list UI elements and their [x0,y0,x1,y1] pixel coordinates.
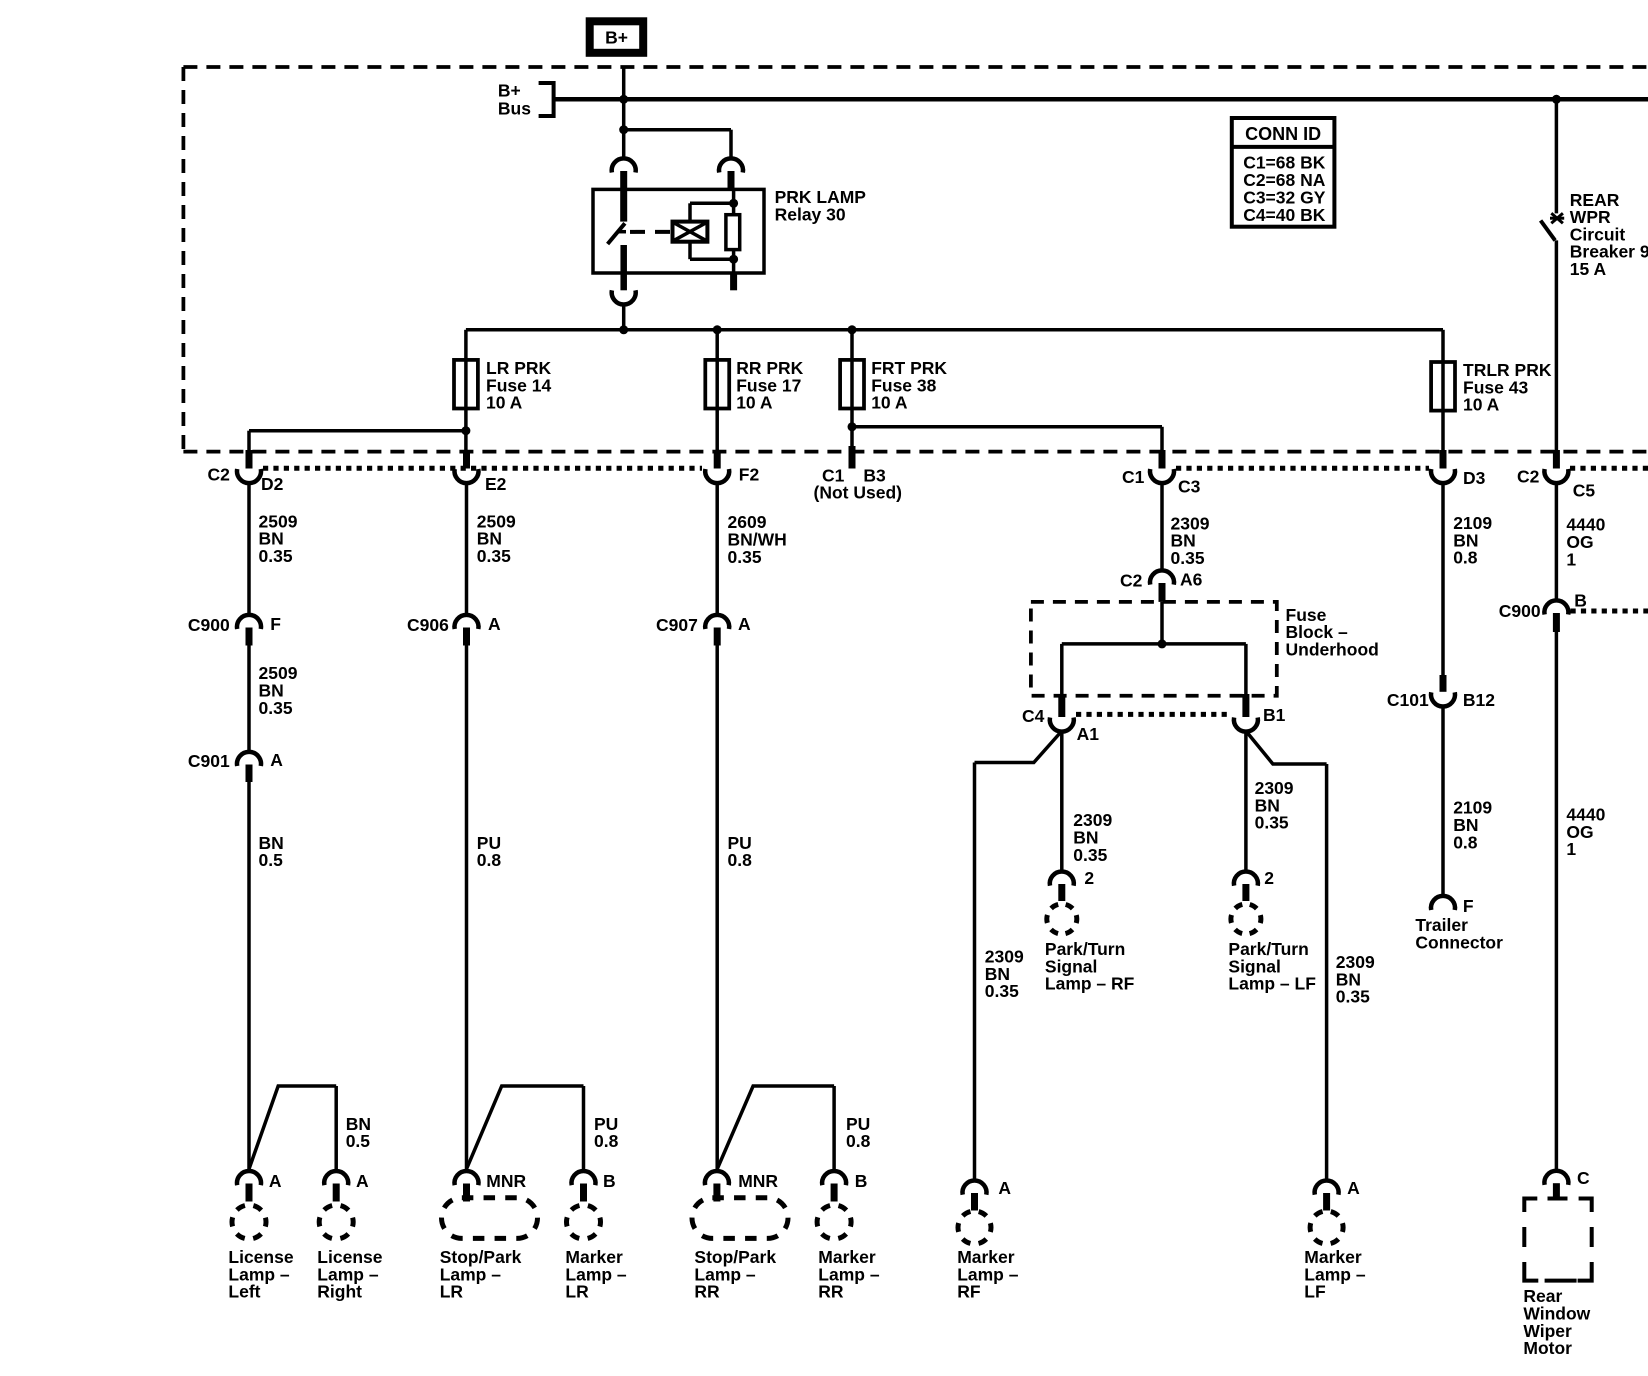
svg-text:A: A [1347,1178,1360,1198]
svg-text:B: B [603,1171,616,1191]
svg-text:CONN ID: CONN ID [1245,124,1321,144]
dotted harness row right of C900/B [1571,609,1648,614]
junction - FRT branch [848,422,857,431]
pin - marker lamp LF [1323,1193,1330,1211]
pin - C906/A [463,628,470,646]
svg-text:B: B [1574,590,1587,610]
B+ Bus bracket [539,83,554,116]
connector terminal F2 [705,469,729,483]
CONN ID table box [1232,118,1335,227]
svg-text:0.35: 0.35 [728,547,762,567]
svg-text:C4=40 BK: C4=40 BK [1243,205,1326,225]
connector C2 terminal C5 [1544,469,1568,483]
wire - resistor top lead [732,190,736,215]
connector - relay switch output (female) [612,290,636,304]
wire - marker LR branch [467,1086,584,1169]
lamp - Marker Lamp LR [567,1205,601,1239]
relay switch blade tick [617,230,626,234]
svg-text:C2: C2 [1120,570,1143,590]
svg-text:15 A: 15 A [1570,259,1607,279]
wire - LR branch horizontal to D2 [249,429,466,433]
fuse LR PRK Fuse 14 [454,360,478,409]
dashed box Fuse Block - Underhood [1031,602,1277,696]
svg-text:0.35: 0.35 [1336,987,1370,1007]
svg-text:0.8: 0.8 [846,1131,871,1151]
pin - connector E2 [463,450,470,469]
wire 2309 BN 0.35 (C3-A6) [1160,483,1164,571]
svg-text:D2: D2 [261,474,284,494]
pin - park/turn LF [1242,884,1249,901]
connector - relay switch input (female) [612,158,636,172]
wire 2509 BN 0.35 (C900-C901) [247,646,251,753]
connector C2 terminal A6 [1150,570,1174,584]
pin - relay coil input [728,171,735,190]
dashed box - underhood electrical center (top edge) [183,65,1648,69]
pin - connector F2 [714,450,721,469]
pin - marker lamp RF [971,1193,978,1211]
relay resistor [726,215,740,250]
wire 2109 BN 0.8 (C101-trailer) [1441,707,1445,897]
wire - license right branch [249,1086,336,1169]
wire 4440 OG 1 (C900/B to wiper) [1555,632,1559,1171]
svg-text:Left: Left [228,1282,260,1302]
connector terminal F (trailer) [1431,896,1455,910]
junction - coil/resistor top [729,199,738,208]
lamp - License Lamp Left [232,1205,266,1239]
svg-text:A: A [738,614,751,634]
dotted harness row D2-F2 [263,466,702,471]
wire - RR fuse to F2 [715,409,719,453]
junction - relay branch [619,125,628,134]
svg-text:C1: C1 [1122,467,1145,487]
svg-text:C101: C101 [1387,690,1429,710]
lamp - Park/Turn Signal Lamp LF [1231,904,1261,934]
svg-text:B: B [855,1171,868,1191]
motor box - Rear Window Wiper Motor [1524,1199,1591,1281]
pin - connector C2/D2 [246,450,253,469]
svg-text:RF: RF [957,1282,981,1302]
wire - TRLR fuse to D3 [1441,411,1445,452]
pin - stop/park lamp LR [463,1184,470,1202]
svg-text:LR: LR [440,1282,464,1302]
wire - relay branch horizontal [624,128,731,132]
wire 2309 BN 0.35 (marker RF drop) [973,763,977,1182]
pin - C900/F [246,628,253,646]
svg-text:0.8: 0.8 [1453,832,1478,852]
connector terminal A (license lamp right) [324,1171,348,1185]
junction - distribution at relay output [619,325,628,334]
connector terminal MNR (stop/park lamp RR) [705,1171,729,1185]
pin - stop/park lamp RR [713,1184,720,1202]
svg-text:A1: A1 [1077,724,1100,744]
wire 2609 BN/WH 0.35 (F2-C907) [715,483,719,615]
svg-text:A: A [270,750,283,770]
fuse TRLR PRK Fuse 43 [1431,362,1455,411]
lamp - Marker Lamp RF [958,1211,991,1244]
connector terminal B1 [1234,718,1258,732]
wire 2509 BN 0.35 (D2-C900) [247,483,251,615]
svg-text:C901: C901 [188,751,230,771]
connector C2 terminal D2 [237,469,261,483]
connector terminal 2 (park/turn RF) [1050,872,1074,886]
wire - B+ to bus [622,67,626,99]
circuit breaker blade [1541,221,1556,241]
svg-text:C4: C4 [1022,706,1045,726]
svg-text:F: F [270,614,281,634]
lamp - Park/Turn Signal Lamp RF [1047,904,1077,934]
svg-text:Underhood: Underhood [1286,639,1379,659]
svg-text:Lamp – LF: Lamp – LF [1228,974,1316,994]
wire BN 0.5 (license right drop) [334,1086,338,1172]
svg-text:F2: F2 [739,464,760,484]
dotted harness row A1-B1 [1076,712,1232,717]
svg-text:RR: RR [694,1282,720,1302]
svg-text:0.35: 0.35 [477,546,511,566]
svg-text:2: 2 [1264,868,1274,888]
pin - marker lamp LR [580,1184,587,1202]
connector C101 terminal B12 [1431,692,1455,706]
connector C906 terminal A [455,615,479,629]
connector terminal A (license lamp left) [237,1171,261,1185]
connector terminal B (marker lamp LR) [572,1171,596,1185]
relay box PRK LAMP Relay 30 [593,189,764,273]
junction - bus at relay feed [619,95,628,104]
pin - rear window wiper motor [1553,1183,1560,1199]
wire through LR fuse [464,360,468,409]
wire - marker RR branch [717,1086,834,1169]
wire - fuse block left drop [1060,644,1064,696]
wire - relay output to distribution [622,303,626,330]
wire through FRT fuse [850,360,854,409]
svg-text:C907: C907 [656,615,698,635]
wire - circuit breaker to C5 [1555,240,1559,452]
connector terminal A (marker lamp RF) [963,1181,987,1195]
junction - distribution at FRT fuse [848,325,857,334]
wire PU 0.8 (marker RR drop) [832,1086,836,1172]
wire - fuse block right drop [1244,644,1248,696]
wire - fuse distribution horizontal [466,328,1443,332]
connector C901 terminal A [237,752,261,766]
connector terminal D3 [1431,469,1455,483]
pin - park/turn RF [1058,884,1065,901]
svg-text:Connector: Connector [1415,932,1503,952]
svg-text:A: A [269,1171,282,1191]
lamp - Marker Lamp RR [817,1205,851,1239]
connector C907 terminal A [705,615,729,629]
connector C900 terminal F [237,615,261,629]
fuse RR PRK Fuse 17 [705,360,729,409]
B+ power symbol box [590,21,644,53]
pin - relay coil output stub [730,273,737,290]
wire PU 0.8 (marker LR drop) [582,1086,586,1172]
connector terminal A (marker lamp LF) [1315,1181,1339,1195]
svg-text:MNR: MNR [486,1171,526,1191]
wire - bus to circuit breaker [1555,99,1559,213]
wire - relay switch feed vertical [622,130,626,159]
svg-text:1: 1 [1566,839,1576,859]
pin - connector C1/C3 [1159,450,1166,469]
pin - C907/A [714,628,721,646]
svg-text:MNR: MNR [738,1171,778,1191]
svg-text:(Not Used): (Not Used) [814,483,902,503]
circuit breaker asterisk [1551,213,1563,223]
pin - license lamp left [246,1184,253,1202]
wire - C3 drop [1160,427,1164,452]
wire - coil top lead [688,203,692,221]
relay switch lower contact [620,245,627,290]
wire - LR fuse to junction [464,409,468,453]
relay coil box [673,222,708,242]
pin - connector D3 [1440,450,1447,469]
wire 2109 BN 0.8 (D3-C101) [1441,483,1445,676]
svg-text:A: A [488,614,501,634]
connector C900 terminal B [1544,600,1568,614]
lamp - Marker Lamp LF [1310,1211,1343,1244]
junction - bus at circuit breaker feed [1552,95,1561,104]
svg-text:C5: C5 [1573,480,1596,500]
pin - marker lamp RR [831,1184,838,1202]
svg-text:B12: B12 [1463,690,1495,710]
svg-text:0.8: 0.8 [728,850,753,870]
svg-text:C906: C906 [407,615,449,635]
dotted harness row C5-right [1570,466,1648,471]
wire - resistor bottom lead [732,250,736,273]
svg-text:0.5: 0.5 [259,850,284,870]
pin - connector B1 [1242,694,1249,717]
fuse FRT PRK Fuse 38 [840,360,864,409]
svg-text:A: A [998,1178,1011,1198]
connector terminal E2 [455,469,479,483]
svg-text:C900: C900 [188,615,230,635]
lamp - Stop/Park Lamp RR [692,1198,788,1239]
wire 2309 BN 0.35 (B1 to park/turn LF) [1244,730,1248,872]
pin - connector C2/C5 [1553,450,1560,469]
relay switch blade [608,223,625,244]
connector terminal B (marker lamp RR) [822,1171,846,1185]
svg-text:0.5: 0.5 [346,1131,371,1151]
svg-text:Bus: Bus [498,99,531,119]
svg-text:0.35: 0.35 [1171,548,1205,568]
pin - C900/B [1553,613,1560,632]
connector terminal C (rear window wiper motor) [1544,1171,1568,1185]
svg-text:10 A: 10 A [1463,395,1500,415]
wire - FRT fuse top lead [850,330,854,360]
connector terminal 2 (park/turn LF) [1234,872,1258,886]
svg-text:B1: B1 [1263,705,1286,725]
svg-text:Relay 30: Relay 30 [775,204,846,224]
svg-text:1: 1 [1566,549,1576,569]
pin - connector C1/B3 not used [849,446,856,469]
wire - fuse block horizontal [1062,642,1246,646]
dashed box - underhood electrical center (bottom edge) [183,450,1648,454]
wire - RR fuse top lead [715,330,719,360]
dotted harness row C3-D3 [1176,466,1429,471]
pin - connector C4/A1 [1058,694,1065,717]
svg-text:LR: LR [565,1282,589,1302]
lamp - Stop/Park Lamp LR [442,1198,538,1239]
wire - B+ bus horizontal [554,97,1648,102]
wire - B1 diagonal branch [1246,731,1327,764]
lamp - License Lamp Right [319,1205,353,1239]
svg-text:10 A: 10 A [486,393,523,413]
wire - FRT branch horizontal to C3 [852,425,1162,429]
svg-text:B+: B+ [605,28,628,48]
wire - D2 drop [247,431,251,452]
relay coil X diagonal 2 [674,223,707,241]
svg-text:0.35: 0.35 [259,546,293,566]
wire - FRT fuse to junction [850,409,854,450]
svg-text:0.8: 0.8 [594,1131,619,1151]
wire - coil bottom lead [688,242,692,260]
connector C1 terminal C3 [1150,469,1174,483]
connector C4 terminal A1 [1050,718,1074,732]
svg-text:10 A: 10 A [871,393,908,413]
pin - license lamp right [333,1184,340,1202]
pin - C901/A [246,765,253,783]
svg-text:0.35: 0.35 [985,981,1019,1001]
wire through TRLR fuse [1441,362,1445,411]
svg-text:B+: B+ [498,81,521,101]
pin - C2/A6 [1159,583,1166,602]
wire PU 0.8 (C907 down) [715,646,719,1172]
junction - LR branch [461,426,470,435]
svg-text:E2: E2 [485,474,507,494]
svg-text:0.35: 0.35 [259,698,293,718]
svg-text:10 A: 10 A [736,393,773,413]
wire BN 0.5 (C901 down) [247,782,251,1172]
wire - relay coil feed vertical [729,130,733,159]
CONN ID table divider [1232,145,1335,149]
wire - A6 into fuse block [1160,602,1164,644]
junction - distribution at RR fuse [713,325,722,334]
svg-text:0.8: 0.8 [1453,548,1478,568]
wire 2309 BN 0.35 (A1 to park/turn RF) [1060,730,1064,872]
svg-text:Motor: Motor [1523,1338,1572,1358]
relay coil X diagonal 1 [674,223,707,241]
svg-text:D3: D3 [1463,468,1486,488]
pin - connector C101/B12 [1440,675,1447,692]
wire through RR fuse [715,360,719,409]
svg-text:2: 2 [1084,868,1094,888]
svg-text:C3: C3 [1178,476,1201,496]
svg-text:F: F [1463,896,1474,916]
junction - coil/resistor bottom [729,255,738,264]
svg-text:0.35: 0.35 [1073,845,1107,865]
svg-text:A6: A6 [1180,569,1203,589]
wire - relay feed vertical [622,99,626,129]
svg-text:LF: LF [1304,1282,1326,1302]
wire PU 0.8 (C906 down) [465,646,469,1172]
dashed box - underhood electrical center (left edge) [182,67,186,452]
wire - LR fuse top lead [464,330,468,360]
svg-text:RR: RR [818,1282,844,1302]
pin - relay switch input [620,171,627,222]
svg-text:C2: C2 [208,464,231,484]
junction - fuse block split [1158,639,1167,648]
relay coil dashed link [630,230,671,234]
svg-text:0.8: 0.8 [477,850,502,870]
svg-text:A: A [356,1171,369,1191]
svg-text:Lamp – RF: Lamp – RF [1045,974,1135,994]
wire 2509 BN 0.35 (E2-C906) [465,483,469,615]
wire - A1 diagonal branch [975,731,1062,763]
svg-text:Right: Right [317,1282,362,1302]
svg-text:0.35: 0.35 [1255,813,1289,833]
svg-text:C: C [1577,1168,1590,1188]
wire 2309 BN 0.35 (marker LF drop) [1325,764,1329,1181]
wire - TRLR fuse top lead [1441,330,1445,362]
connector - relay coil input (female) [719,158,743,172]
wire 4440 OG 1 (C5-C900) [1555,483,1559,601]
connector terminal MNR (stop/park lamp LR) [454,1171,478,1185]
svg-text:C2: C2 [1517,467,1540,487]
svg-text:C900: C900 [1499,601,1541,621]
